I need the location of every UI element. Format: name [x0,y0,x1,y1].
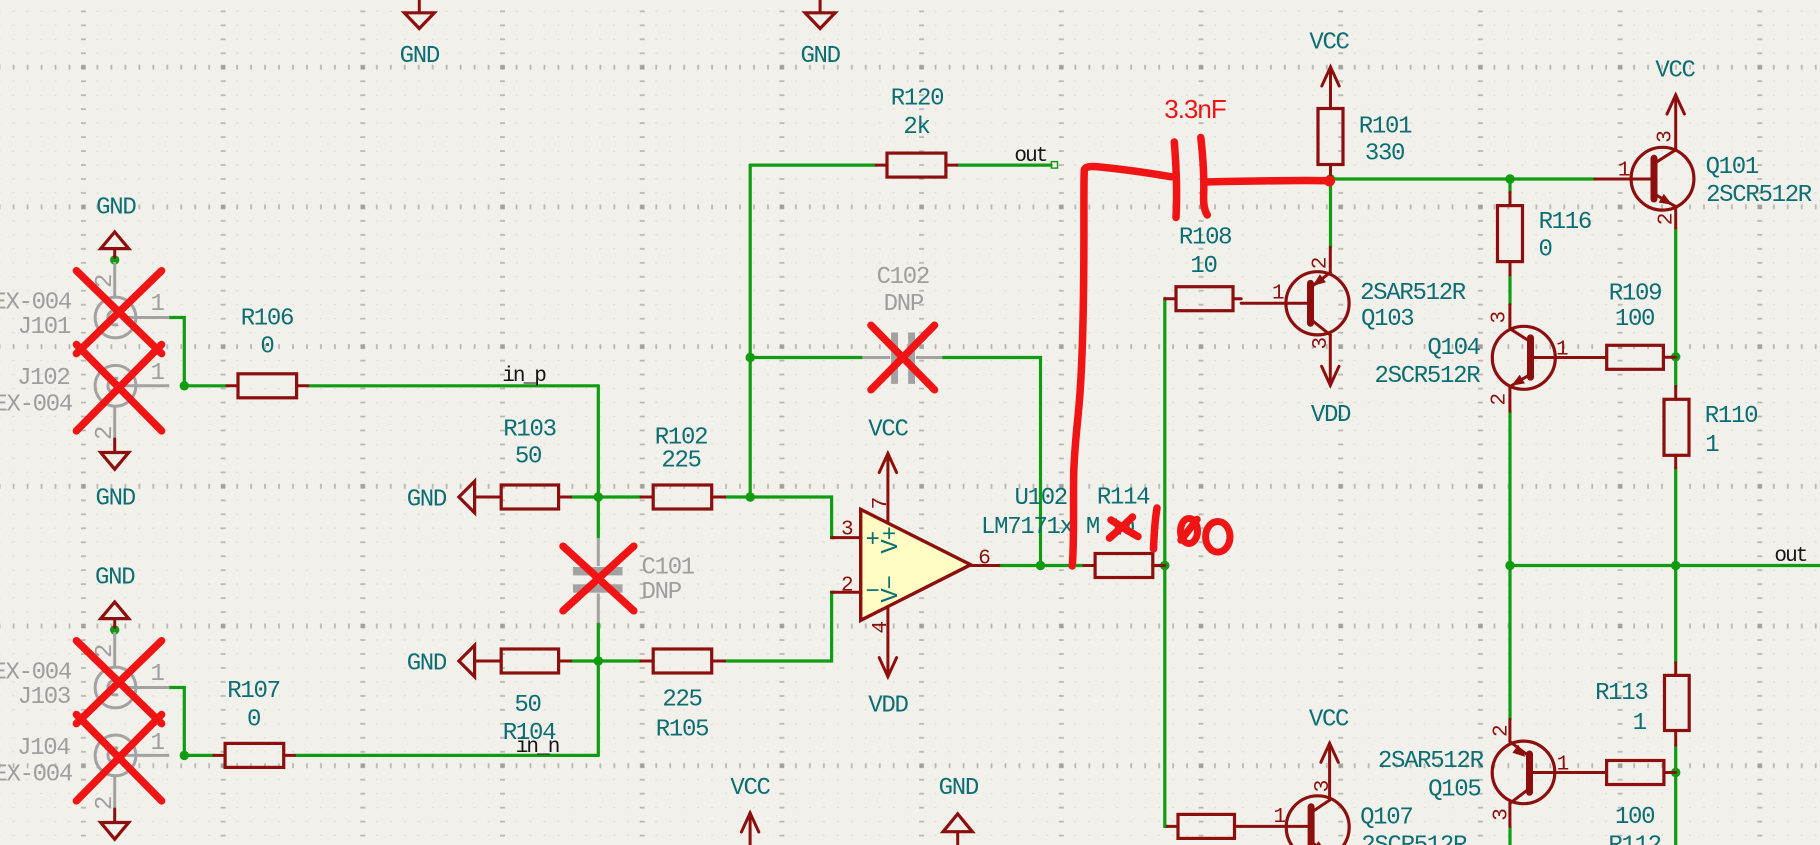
VCC above Q101 [1667,95,1684,150]
red ink X over C101 [563,546,634,611]
svg-text:VDD: VDD [1311,402,1351,429]
svg-text:J102: J102 [17,365,69,392]
junction dot R116 top [1505,174,1514,183]
svg-text:R109: R109 [1609,281,1661,308]
wire C102 right down to output [942,358,1040,566]
svg-text:R106: R106 [241,305,293,332]
wire Q104 emitter down to out junction [1508,411,1511,565]
svg-text:R120: R120 [891,85,943,112]
svg-text:50: 50 [515,444,541,471]
svg-text:V+: V+ [878,527,905,554]
junction dot R101 bottom [1326,174,1335,183]
svg-text:EX-004: EX-004 [0,290,72,317]
svg-text:GND: GND [800,43,840,70]
junction dot out R110 [1671,561,1680,570]
junction dot output C102 [1036,561,1045,570]
junction dot R114 out [1160,561,1169,570]
wire C102 left [750,356,862,359]
resistor R113 (vertical) [1665,663,1690,746]
svg-text:1: 1 [151,360,165,387]
svg-text:2: 2 [841,575,853,598]
svg-text:EX-004: EX-004 [0,392,73,419]
connector J103 [95,632,169,708]
svg-text:in_p: in_p [502,365,546,388]
red ink blob at junction [1324,176,1335,187]
svg-text:GND: GND [939,775,979,802]
junction dot C102 left [746,353,755,362]
svg-text:1: 1 [151,291,165,318]
wire R107 right to in_n [295,754,599,757]
svg-text:3.3nF: 3.3nF [1164,94,1226,124]
connector J102 [95,365,169,439]
wire in_p net vertical [597,386,600,538]
red ink first 0 of x100 [1181,519,1198,544]
red ink capacitor left plate [1174,142,1176,218]
svg-text:GND: GND [96,486,136,513]
svg-text:2SAR512R: 2SAR512R [1378,748,1484,775]
wire R106 left [184,384,227,387]
wire R110 bottom to out junction [1674,468,1677,566]
svg-text:U102: U102 [1014,485,1066,512]
junction dot R104 R105 [594,656,603,665]
op-amp U102 [832,509,999,620]
svg-text:3: 3 [1489,312,1512,324]
junction dot opamp pin3 net [746,492,755,501]
svg-text:VCC: VCC [1309,30,1349,57]
svg-text:VCC: VCC [868,417,908,444]
svg-text:GND: GND [407,651,447,678]
ground above J101 [101,232,129,257]
svg-text:1: 1 [1618,159,1630,182]
wire feedback vertical x750 [749,165,752,497]
svg-text:J104: J104 [17,735,70,762]
svg-text:C102: C102 [877,264,929,291]
wire junction to R105 [598,659,641,662]
resistor R106 [227,374,308,398]
svg-text:225: 225 [662,687,701,714]
ground below J102 [101,439,129,469]
wire out junction to R113 [1674,566,1677,663]
red ink x of x100 [1110,517,1139,538]
svg-text:VCC: VCC [730,775,770,802]
svg-text:3: 3 [1310,337,1333,349]
svg-text:R103: R103 [503,417,555,444]
svg-text:2: 2 [1310,257,1333,269]
svg-text:2SAR512R: 2SAR512R [1360,280,1466,307]
red ink X over C102 [871,325,935,390]
wire R103 to junction [571,495,599,498]
connector J101 [95,262,169,338]
ground arrow at R103 [459,481,501,513]
svg-text:3: 3 [1491,809,1514,821]
svg-text:R105: R105 [656,717,708,744]
wire R101 junction down to Q103 pin2 [1329,179,1332,247]
svg-text:DNP: DNP [884,291,924,318]
resistor R107 [214,743,295,767]
svg-text:R114: R114 [1097,485,1150,512]
svg-text:VCC: VCC [1655,58,1695,85]
svg-text:LM7171x M: LM7171x M [981,514,1099,541]
svg-text:330: 330 [1365,141,1404,168]
resistor R114 [1084,554,1165,578]
wire feedback junction to opamp pin3 [750,497,834,538]
wire R101 row to Q101 base [1331,177,1596,180]
wire opamp output to R114 [999,564,1084,567]
VCC above Q107 [1321,743,1338,781]
wire Q101 emitter down to R109 junction [1674,228,1677,357]
svg-text:3: 3 [1312,780,1335,792]
ground top left x420 [404,0,434,29]
svg-text:2SCR512R: 2SCR512R [1374,363,1480,390]
wire J101 pin1 to in_p junction [169,318,184,386]
svg-text:GND: GND [95,565,135,592]
svg-text:2: 2 [1491,725,1514,737]
svg-text:0: 0 [1538,237,1551,264]
resistor R111 [1167,814,1241,838]
wire R116 bottom to Q104 collector [1508,275,1511,305]
svg-text:R104: R104 [503,720,556,747]
svg-text:2k: 2k [903,114,930,141]
transistor Q101 [1595,147,1694,228]
transistor Q105 [1492,719,1606,826]
svg-text:R110: R110 [1705,403,1757,430]
svg-text:2: 2 [1488,393,1511,405]
svg-text:Q103: Q103 [1361,306,1413,333]
resistor R108 [1165,287,1241,311]
ground above J103 [101,602,129,627]
resistor R104 [501,649,570,673]
svg-text:1: 1 [1272,283,1284,306]
VCC bottom middle [741,813,758,845]
svg-text:10: 10 [1190,253,1216,280]
svg-text:DNP: DNP [642,579,682,606]
svg-text:VDD: VDD [868,693,908,720]
svg-text:0: 0 [247,706,260,733]
wire R120 left [750,164,876,167]
transistor Q104 [1492,305,1606,411]
resistor R102 [641,485,725,509]
resistor R101 (vertical) [1318,95,1343,179]
svg-text:1: 1 [151,661,165,688]
svg-text:1: 1 [1633,710,1647,737]
wire R106 right to in_p [308,384,599,387]
svg-text:out: out [1014,145,1046,168]
resistor R105 [641,649,725,673]
svg-text:1: 1 [1705,432,1719,459]
capacitor C102 (DNP, gray) [862,333,942,384]
connector J104 [95,735,169,808]
ground below J104 [101,809,129,839]
svg-text:4: 4 [870,622,893,634]
wire R105 to opamp pin2 [725,592,834,661]
red ink vertical line with top corner to horizontal [1072,167,1171,566]
svg-text:2SCR512R: 2SCR512R [1361,833,1467,845]
VCC opamp V+ [879,454,896,522]
svg-text:R112: R112 [1608,832,1660,845]
svg-text:C101: C101 [642,555,695,582]
red ink X over J104 [76,715,161,801]
resistor R116 (vertical) [1498,192,1523,275]
resistor R103 [501,485,570,509]
svg-text:J101: J101 [18,314,71,341]
ground bottom middle [943,814,972,845]
svg-text:3: 3 [1655,131,1678,143]
junction dot R112 R113 [1671,768,1680,777]
svg-text:50: 50 [514,692,540,719]
svg-text:1: 1 [1557,753,1569,776]
wire R113 bottom to R112 junction [1674,745,1677,772]
svg-text:2: 2 [92,427,119,440]
ground arrow at R104 [459,645,501,677]
svg-text:out: out [1774,545,1806,568]
junction dot in_n [180,751,189,760]
resistor R112 [1607,761,1676,785]
wire R112 junction down [1674,773,1677,845]
red ink horizontal right segment [1206,181,1332,182]
svg-text:2: 2 [1656,213,1679,225]
transistor Q103 [1241,247,1349,335]
junction dot in_p [180,381,189,390]
junction dot out left [1505,561,1514,570]
wire R107 left [184,754,214,757]
svg-text:R116: R116 [1539,209,1591,236]
net label anchor square out [1051,162,1057,169]
svg-text:6: 6 [978,548,990,571]
svg-text:GND: GND [400,43,440,70]
svg-text:1: 1 [151,730,165,757]
svg-text:Q104: Q104 [1427,335,1480,362]
svg-text:0: 0 [260,333,273,360]
svg-text:2SCR512R: 2SCR512R [1706,182,1812,209]
junction dot J103 gnd [110,625,119,634]
svg-text:100: 100 [1615,306,1654,333]
red ink X over J101 [76,271,161,354]
wire vertical x1165 [1165,298,1167,826]
svg-text:Q105: Q105 [1428,777,1480,804]
svg-text:V−: V− [878,576,905,603]
wire R120 right to out label [957,164,1051,167]
svg-text:R107: R107 [227,678,279,705]
wire out junction down to Q105 pin2 [1508,566,1511,720]
ground top x820 [805,0,835,29]
svg-text:1: 1 [1273,806,1285,829]
red ink X over J103 [76,641,161,724]
wire J103 pin1 to in_n junction [169,688,184,756]
svg-text:R108: R108 [1179,225,1231,252]
svg-text:EX-004: EX-004 [0,762,73,789]
junction dot R102 R103 [594,492,603,501]
red ink 1 of x100 [1154,508,1158,549]
svg-text:2: 2 [92,797,119,810]
svg-text:GND: GND [407,487,447,514]
svg-text:225: 225 [661,448,700,475]
capacitor C101 (DNP, gray) [573,538,623,623]
junction dot R109 right [1671,352,1680,361]
junction dot J101 gnd [110,255,119,264]
resistor R110 (vertical) [1664,386,1689,468]
svg-text:3: 3 [841,518,853,541]
svg-text:Q107: Q107 [1360,805,1412,832]
resistor R120 [876,153,957,177]
red ink capacitor right plate [1201,138,1208,216]
wire R116 top [1508,179,1511,192]
svg-text:100: 100 [1615,804,1654,831]
wire R114 right junction [1153,564,1165,567]
svg-text:EX-004: EX-004 [0,660,72,687]
wire junction to R102 [598,495,641,498]
wire vertical x598 lower segment [597,623,600,755]
red ink X over J102 [76,345,161,431]
svg-text:GND: GND [96,195,136,222]
svg-text:R101: R101 [1359,114,1412,141]
wire Q105 pin3 down [1508,826,1511,845]
wire R102 to feedback junction [725,495,751,498]
svg-text:1: 1 [1556,338,1568,361]
svg-text:7: 7 [870,498,893,510]
svg-text:VCC: VCC [1309,707,1349,734]
wire out net right [1510,564,1820,567]
VDD below Q103 [1322,335,1339,385]
svg-text:R113: R113 [1595,680,1647,707]
VCC above R101 [1322,67,1339,95]
svg-text:J103: J103 [18,684,70,711]
red ink second 0 of x100 [1206,522,1230,553]
transistor Q107 [1241,781,1349,845]
svg-text:Q101: Q101 [1706,154,1759,181]
resistor R109 [1607,345,1676,369]
wire R104 to junction [571,659,599,662]
wire R109 junction to R110 [1674,357,1677,387]
VDD opamp V- [879,607,896,677]
